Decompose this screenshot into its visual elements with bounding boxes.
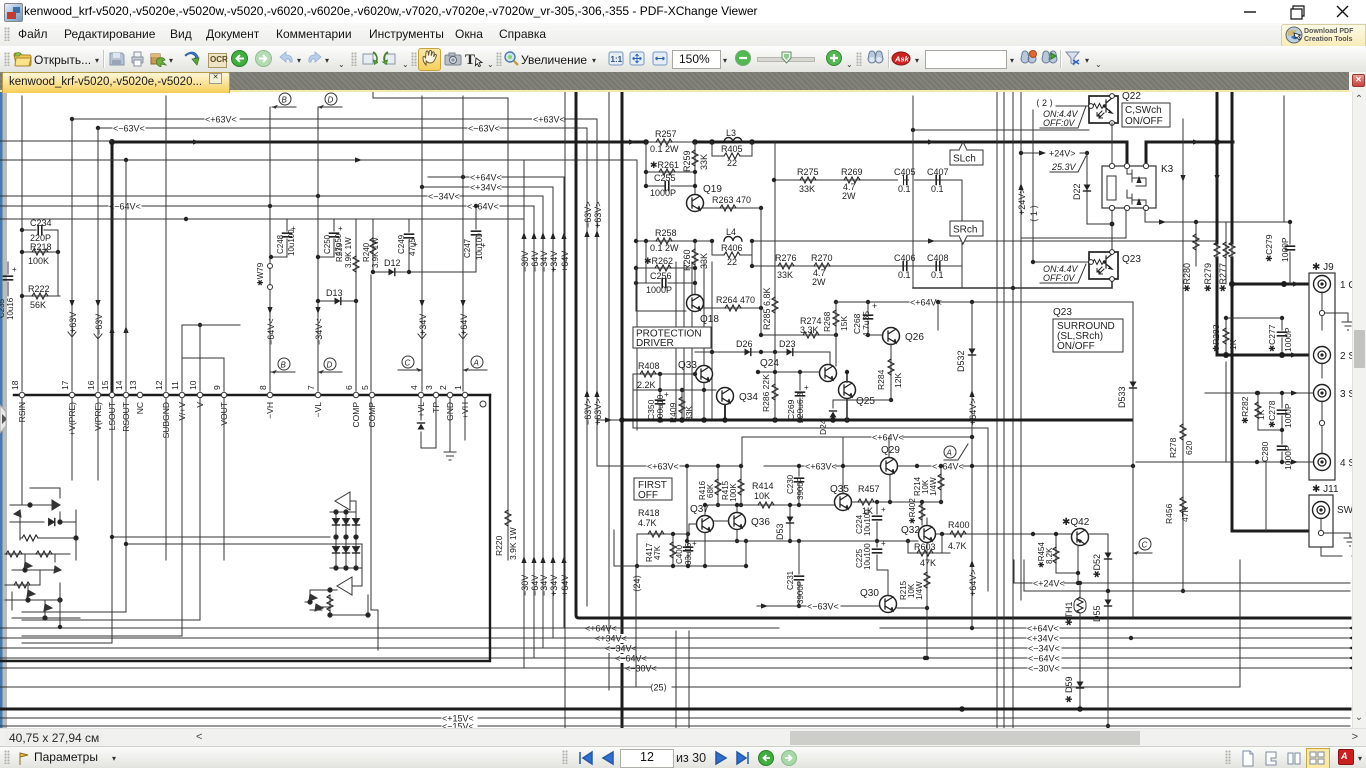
rotated +24V on x=1021: [1017, 183, 1027, 215]
resistor R214 10K 1/4W: [913, 464, 944, 502]
wire: mid rail y=541: [685, 464, 910, 543]
resistor R262: [634, 256, 697, 271]
wire: vertical x=126 pin14: [125, 160, 127, 391]
svg-text:−34V: −34V: [539, 251, 549, 272]
svg-text:R278: R278: [1168, 437, 1178, 458]
resistor R282 1K: [1240, 391, 1266, 430]
filter row 2: R276 33K: [750, 241, 962, 280]
svg-text:Q32: Q32: [901, 525, 920, 536]
wire: x=1183 column: [1181, 119, 1185, 593]
wire: +64V line y=302: [836, 298, 1133, 308]
svg-text:Q19: Q19: [703, 184, 722, 195]
svg-text:<+64V<: <+64V<: [932, 462, 964, 472]
svg-text:C247: C247: [463, 238, 472, 258]
resistor R414 10K: [705, 481, 799, 508]
svg-text:R218: R218: [30, 242, 52, 252]
svg-text:<−64V<: <−64V<: [1028, 654, 1060, 664]
transistor Q32: [901, 518, 936, 543]
optocoupler Q22: [1089, 91, 1142, 164]
wire: line y=462 to jack4: [1136, 459, 1313, 464]
wire: rail y=141 left stub: [0, 140, 112, 142]
wire: thick SL bus vertical drops: [112, 142, 1146, 391]
transistor Q36: [714, 503, 770, 543]
svg-text:<−30V<: <−30V<: [1028, 664, 1060, 674]
svg-text:33u16: 33u16: [684, 542, 693, 565]
diode D53: [775, 503, 794, 543]
resistor R286 22K: [761, 352, 778, 420]
wire: right bundle verticals: [988, 92, 1033, 746]
svg-text:<−64V<: <−64V<: [109, 202, 141, 212]
resistor R270 4.7 2W: [811, 253, 833, 287]
capacitor C247 10u100: [463, 204, 486, 272]
wire: IC long ties: [112, 537, 362, 568]
svg-text:47K: 47K: [1180, 507, 1190, 522]
IC internal cluster upper-left: [10, 488, 78, 560]
wire: +63V/+64V line y=466: [764, 462, 1135, 472]
svg-text:R222: R222: [28, 284, 50, 294]
svg-text:<−34V<: <−34V<: [1028, 644, 1060, 654]
wire: -64V arrow into pin8: [266, 307, 276, 345]
svg-text:47u5: 47u5: [408, 238, 417, 256]
svg-text:2W: 2W: [842, 191, 856, 201]
capacitor C225 10u100: [855, 539, 888, 595]
label 25.3V: [1050, 156, 1086, 172]
svg-text:10u100: 10u100: [863, 509, 872, 536]
wire: long verticals x=565..637: [565, 92, 637, 746]
svg-text:C231: C231: [786, 570, 795, 590]
svg-text:100K: 100K: [28, 256, 49, 266]
svg-text:7: 7: [306, 385, 316, 390]
wire: vertical x=318 pin7: [314, 107, 324, 391]
svg-text:3.9K 1W: 3.9K 1W: [371, 237, 380, 268]
resistor R408 2.2K: [633, 361, 697, 390]
svg-text:<+64V<: <+64V<: [585, 624, 617, 634]
svg-text:Q26: Q26: [905, 332, 924, 343]
transistor Q35: [799, 464, 852, 511]
svg-text:C250: C250: [323, 234, 332, 254]
wire: +64V label line y=177: [428, 173, 564, 183]
svg-text:C230: C230: [786, 474, 795, 494]
svg-text:47K: 47K: [653, 545, 662, 560]
node C marker: [1133, 466, 1152, 617]
svg-text:220u6.3: 220u6.3: [795, 392, 805, 423]
svg-text:12: 12: [154, 380, 164, 390]
svg-text:C280: C280: [1260, 441, 1270, 462]
svg-text:C255: C255: [654, 173, 676, 183]
label ON:4.4V OFF:0V (Q22): [1040, 106, 1086, 128]
svg-text:✱R283: ✱R283: [1211, 324, 1221, 352]
svg-text:C,SWch: C,SWch: [1125, 105, 1162, 116]
resistor R454 8.2K: [1037, 532, 1080, 585]
wire: vertical x=270 pin8 with W79 jumper: [256, 107, 273, 391]
box C,SWch ON/OFF: [1122, 103, 1170, 127]
svg-text:C405: C405: [894, 167, 916, 177]
label (2) wire to Q22: [1036, 98, 1088, 108]
svg-text:✱R261: ✱R261: [650, 160, 679, 170]
capacitor C268 4.7u35: [852, 300, 877, 337]
callout SLch: [950, 142, 983, 165]
svg-text:Q36: Q36: [751, 517, 770, 528]
wire: +63V feed line y=466 left: [597, 462, 742, 472]
svg-text:10u100: 10u100: [475, 233, 484, 260]
svg-text:<−64V<: <−64V<: [467, 202, 499, 212]
resistor R402: [908, 498, 925, 525]
svg-text:−34V<: −34V<: [314, 318, 324, 345]
svg-text:C248: C248: [276, 234, 285, 254]
svg-text:OFF: OFF: [638, 490, 658, 501]
resistor R280: [1182, 220, 1199, 292]
transistor Q29: [881, 437, 901, 475]
svg-text:1K: 1K: [1256, 409, 1266, 420]
resistor R457 1K: [851, 484, 943, 516]
svg-text:1/4W: 1/4W: [929, 477, 938, 496]
svg-text:18: 18: [10, 380, 20, 390]
transistor Q33: [678, 360, 713, 383]
diode D26: [695, 339, 775, 356]
capacitor C269 220u6.3: [786, 370, 809, 423]
svg-text:D13: D13: [326, 288, 343, 298]
svg-text:47K: 47K: [920, 558, 936, 568]
svg-text:C406: C406: [894, 253, 916, 263]
svg-text:−30V: −30V: [520, 251, 530, 272]
svg-text:R285 6.8K: R285 6.8K: [762, 287, 772, 330]
svg-text:A: A: [473, 359, 479, 368]
svg-text:+24V>: +24V>: [1049, 149, 1076, 159]
svg-text:11: 11: [170, 381, 180, 390]
svg-text:R240: R240: [362, 242, 371, 262]
svg-text:D533: D533: [1117, 386, 1127, 408]
svg-text:8.2K: 8.2K: [1045, 547, 1054, 564]
transistor Q26: [868, 302, 938, 345]
svg-text:2W: 2W: [812, 277, 826, 287]
wire: pins 11/10/9 loop: [182, 323, 240, 391]
capacitor C235 10u16: [0, 262, 17, 320]
svg-text:R408: R408: [638, 361, 660, 371]
resistor R269 4.7 2W: [841, 167, 863, 201]
svg-text:<+34V<: <+34V<: [1027, 634, 1059, 644]
diode D533: [1117, 302, 1137, 466]
wire: up arrows on LSOUT/RSOUT: [109, 326, 128, 333]
wire: pin columns descending inside IC: [22, 398, 378, 650]
svg-text:16: 16: [86, 380, 96, 390]
svg-text:Q29: Q29: [881, 445, 900, 456]
svg-text:3.9K 1W: 3.9K 1W: [344, 237, 353, 268]
resistor R259 33K: [646, 142, 709, 195]
svg-text:L4: L4: [726, 227, 736, 237]
svg-text:+64V: +64V: [459, 314, 469, 335]
wire: -63V spur y=606: [757, 602, 879, 612]
svg-text:<−34V<: <−34V<: [605, 644, 637, 654]
svg-text:B: B: [282, 96, 288, 105]
svg-text:+34V: +34V: [549, 251, 559, 272]
wire: y=130 line into Q22: [911, 96, 1089, 288]
svg-text:17: 17: [60, 380, 70, 390]
diode D55: [1092, 600, 1112, 623]
thick output rail y=425: [597, 417, 1131, 423]
resistor R281 1K: [1216, 91, 1218, 93]
box FIRST OFF: [634, 478, 672, 501]
wire: SR bus y=241: [634, 238, 1217, 243]
svg-text:33K: 33K: [777, 270, 793, 280]
svg-text:R286 22K: R286 22K: [761, 374, 771, 412]
svg-text:4.7K: 4.7K: [948, 541, 967, 551]
resistor R279 (in thick column x=1217): [1203, 242, 1220, 292]
svg-text:0.1: 0.1: [898, 270, 911, 280]
node B marker top: [272, 93, 296, 109]
wire: vertical x=422 pin4 +34V arrow: [418, 96, 428, 391]
svg-text:R263 470: R263 470: [712, 195, 751, 205]
svg-text:−30V: −30V: [520, 575, 530, 596]
svg-text:−34V: −34V: [539, 575, 549, 596]
svg-text:R456: R456: [1164, 503, 1174, 524]
svg-text:Q18: Q18: [700, 314, 719, 325]
svg-text:3900P: 3900P: [796, 581, 805, 604]
svg-text:9: 9: [212, 385, 222, 390]
node B marker above pin8: [271, 358, 295, 374]
wire: vertical x=962: [961, 180, 963, 288]
svg-text:R603: R603: [914, 542, 936, 552]
resistor R456 47K: [1164, 497, 1190, 524]
capacitor C255 1000P: [644, 173, 697, 198]
svg-text:<−63V<: <−63V<: [807, 602, 839, 612]
svg-text:8: 8: [258, 385, 268, 390]
wire: +24V spur: [1019, 149, 1089, 159]
diode D52: [1092, 538, 1112, 728]
svg-text:R257: R257: [655, 129, 677, 139]
diode D22: [1072, 153, 1091, 224]
svg-text:R220: R220: [494, 535, 504, 556]
svg-text:−64V<: −64V<: [266, 318, 276, 345]
svg-text:R414: R414: [752, 481, 774, 491]
svg-text:✱D52: ✱D52: [1092, 554, 1102, 578]
svg-text:C408: C408: [927, 253, 949, 263]
svg-text:0.1 2W: 0.1 2W: [650, 144, 679, 154]
svg-text:5: 5: [360, 385, 370, 390]
resistor R285 6.8K: [762, 142, 778, 352]
svg-text:D: D: [327, 361, 333, 370]
svg-text:<−64V<: <−64V<: [615, 654, 647, 664]
inductor L4: [710, 227, 754, 243]
wire: -34V label line y=196: [0, 192, 543, 202]
svg-text:2: 2: [438, 385, 448, 390]
svg-text:D23: D23: [779, 339, 796, 349]
svg-text:<−63V<: <−63V<: [113, 124, 145, 134]
wire: vertical x=761: [760, 208, 762, 336]
capacitor C224 10u100: [855, 500, 886, 541]
svg-text:12K: 12K: [893, 373, 903, 388]
resistor R257 0.1 2W on SL bus: [643, 129, 698, 154]
IC box top edge / pin row: [0, 395, 490, 661]
node D marker top: [318, 93, 342, 109]
wire: Q29 emitter drop: [889, 475, 891, 502]
svg-text:C400: C400: [675, 544, 684, 564]
thermistor TH1: [1064, 583, 1086, 709]
IC internal: op-amp triangle 1 + diode grid: [330, 492, 362, 570]
svg-text:15K: 15K: [839, 316, 849, 331]
svg-text:✱R282: ✱R282: [1240, 396, 1250, 424]
svg-text:✱C277: ✱C277: [1267, 324, 1277, 352]
wire: thick verticals down to jacks: [1180, 92, 1311, 531]
svg-text:22: 22: [727, 158, 737, 168]
resistor R220 3.9K 1W: [494, 510, 518, 560]
resistor R284 12K: [876, 344, 903, 402]
jack 1 C: [1314, 276, 1356, 331]
svg-text:1000P: 1000P: [1280, 237, 1290, 262]
svg-text:COMP: COMP: [351, 402, 361, 428]
svg-text:R457: R457: [858, 484, 880, 494]
svg-text:−63V>: −63V>: [583, 398, 593, 425]
diode D12: [371, 258, 476, 276]
relay K3: [1102, 163, 1174, 210]
svg-text:R258: R258: [655, 228, 677, 238]
transistor Q25: [839, 370, 876, 420]
wire: vertical x=1266: [1265, 462, 1267, 531]
svg-text:+63V>: +63V>: [593, 398, 603, 425]
svg-text:✱TH1: ✱TH1: [1064, 601, 1074, 626]
wire: rail y=215: [0, 217, 524, 221]
svg-text:<+24V<: <+24V<: [1033, 579, 1065, 589]
rotated -63V/+63V labels upper: [583, 201, 603, 237]
wire: y=318 tie: [1224, 316, 1282, 320]
wire: left pane edge strip: [0, 92, 7, 746]
wire: rail y=160: [0, 157, 637, 162]
transistor Q34: [717, 388, 759, 421]
svg-text:✱C279: ✱C279: [1264, 234, 1274, 262]
label (1) rotated on x=1033: [1029, 205, 1039, 222]
svg-text:13: 13: [128, 380, 138, 390]
pin names: [17, 402, 470, 439]
svg-text:D: D: [328, 96, 334, 105]
svg-text:R276: R276: [775, 253, 797, 263]
svg-text:Q23: Q23: [1122, 254, 1141, 265]
svg-text:68K: 68K: [706, 483, 715, 498]
svg-text:✱R402: ✱R402: [908, 498, 917, 524]
svg-text:Q35: Q35: [830, 484, 849, 495]
svg-text:<+63V<: <+63V<: [533, 115, 565, 125]
IC internal: op-amp triangle 2 + pair: [305, 568, 370, 617]
svg-text:33K: 33K: [799, 184, 815, 194]
wire: +63V top rail y=119: [70, 115, 597, 125]
svg-text:R400: R400: [948, 520, 970, 530]
wire: +15V/-15V rails: [0, 714, 1350, 724]
connector J9 box: [1309, 262, 1335, 480]
svg-text:0.1 2W: 0.1 2W: [650, 243, 679, 253]
transistor Q18: [636, 268, 719, 325]
svg-text:1000P: 1000P: [1283, 327, 1293, 352]
svg-text:R264 470: R264 470: [716, 295, 755, 305]
svg-text:<−34V<: <−34V<: [428, 192, 460, 202]
svg-text:C256: C256: [650, 271, 672, 281]
svg-text:3.9K 1W: 3.9K 1W: [508, 527, 518, 560]
jack 3 S: [1314, 385, 1356, 454]
svg-text:Q34: Q34: [739, 392, 758, 403]
wire: vertical x=98 pin16 -63V arrow: [94, 128, 104, 391]
filter row 1: R275 33K: [772, 167, 962, 194]
svg-text:D55: D55: [1092, 605, 1102, 622]
svg-text:NC: NC: [135, 402, 145, 414]
wire: y=222 line to R280 column: [1159, 96, 1284, 225]
svg-text:⟨24⟩: ⟨24⟩: [632, 575, 642, 592]
svg-text:R405: R405: [721, 144, 743, 154]
wire: y=390 base line: [633, 383, 716, 420]
wire: +63V upper-mid label y=119 x534: [532, 113, 565, 125]
svg-text:<+64V<: <+64V<: [1027, 624, 1059, 634]
wire: (25) line y=687: [0, 560, 1240, 693]
resistor R240 3.9K 1W: [362, 219, 380, 272]
svg-text:4.7K: 4.7K: [638, 518, 657, 528]
svg-text:56K: 56K: [30, 300, 46, 310]
svg-text:A: A: [946, 449, 952, 458]
wire: K3 bottom wiring: [1021, 210, 1290, 250]
resistor R258 0.1 2W: [644, 228, 697, 253]
svg-text:C249: C249: [397, 234, 406, 254]
capacitor C234 220P: [20, 218, 58, 243]
svg-text:1000P: 1000P: [1283, 403, 1293, 428]
svg-text:⟨ 1 ⟩: ⟨ 1 ⟩: [1029, 205, 1039, 222]
svg-text:3.3K: 3.3K: [800, 325, 819, 335]
capacitor C250 47u50: [316, 219, 343, 259]
wire: -63V vertical x=587: [583, 128, 593, 606]
svg-text:1000P: 1000P: [650, 188, 676, 198]
svg-text:ON/OFF: ON/OFF: [1057, 341, 1095, 352]
svg-text:R259: R259: [682, 150, 692, 172]
capacitor C248 10u100: [269, 219, 296, 259]
node A marker: [944, 444, 968, 460]
resistor R278 620: [1168, 424, 1194, 458]
svg-text:620: 620: [1184, 441, 1194, 455]
resistor R405 22 parallel: [712, 142, 752, 168]
resistor R400 4.7K: [936, 520, 1071, 551]
diode D23: [773, 339, 830, 364]
wire: vertical x=72 pin17 +63V arrow: [68, 119, 78, 391]
svg-text:SLch: SLch: [953, 154, 976, 165]
svg-text:L3: L3: [726, 128, 736, 138]
resistor R283 1K: [1211, 318, 1257, 358]
svg-text:33K: 33K: [699, 154, 709, 170]
svg-text:ON/OFF: ON/OFF: [1125, 116, 1163, 127]
svg-text:−VH: −VH: [265, 402, 275, 419]
svg-text:100K: 100K: [729, 483, 738, 502]
svg-text:✱W79: ✱W79: [256, 262, 265, 286]
wire: right area line y=591: [1024, 560, 1350, 591]
resistor R603 47K: [908, 534, 950, 568]
capacitor C277 1000P: [1267, 316, 1293, 358]
svg-text:<+63V<: <+63V<: [205, 115, 237, 125]
wire: y=288 bottom line: [913, 278, 1112, 290]
inductor L3: [709, 128, 755, 145]
svg-text:−63V: −63V: [94, 314, 104, 335]
wire: top loop x404-508: [373, 92, 508, 560]
wire: thick bottom bus y=709: [0, 706, 1350, 712]
wire: vertical x=166 pin12: [165, 96, 167, 391]
wire: y=335 R274 line: [759, 316, 838, 338]
wire: cluster bottom y=562: [614, 530, 748, 568]
svg-text:<+64V<: <+64V<: [872, 433, 904, 443]
svg-text:+34V: +34V: [549, 575, 559, 596]
svg-text:10u16: 10u16: [6, 297, 15, 320]
svg-text:D12: D12: [384, 258, 401, 268]
svg-text:Q22: Q22: [1122, 92, 1141, 102]
svg-text:D532: D532: [956, 350, 966, 372]
wire: +63V vertical x=597: [593, 119, 603, 466]
resistor R418 4.7K: [637, 508, 689, 537]
svg-text:OFF:0V: OFF:0V: [1043, 118, 1076, 128]
jack 2 S: [1314, 347, 1356, 379]
svg-text:D26: D26: [736, 339, 753, 349]
wire: box line y=437 left part: [742, 437, 843, 466]
svg-text:R418: R418: [638, 508, 660, 518]
svg-text:R269: R269: [841, 167, 863, 177]
